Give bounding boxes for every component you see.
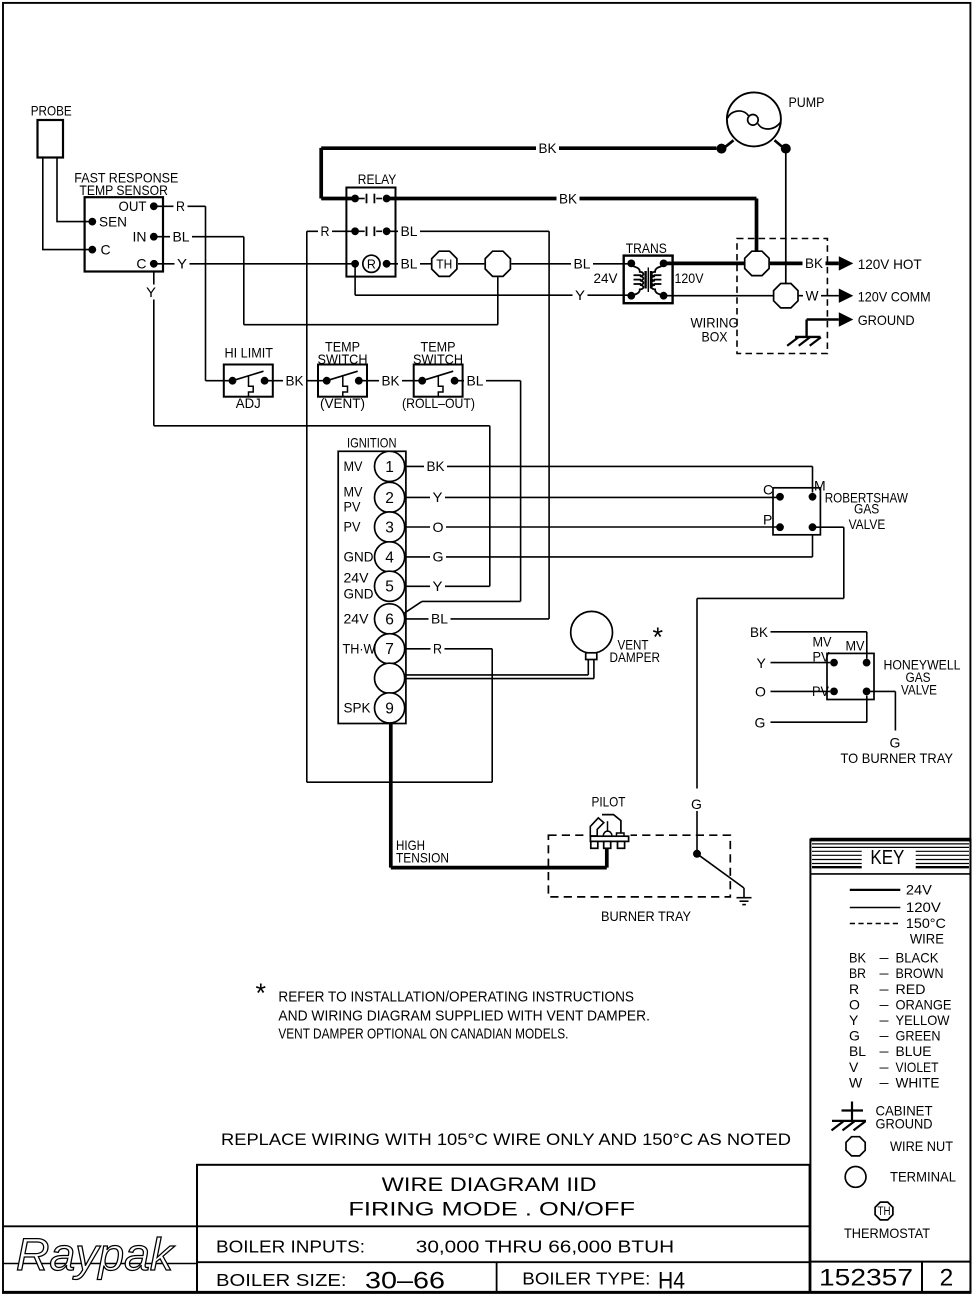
wire TH to wire nut (458, 263, 484, 265)
wire BK to 120V hot arrow (770, 262, 839, 266)
honeywell terminals (830, 659, 838, 667)
svg-text:–: – (880, 1074, 889, 1090)
honeywell gas valve box (827, 653, 874, 699)
svg-text:VENT DAMPER OPTIONAL ON CANADI: VENT DAMPER OPTIONAL ON CANADIAN MODELS. (278, 1026, 568, 1043)
robertshaw terminals C M P and MV (776, 493, 784, 501)
svg-text:1: 1 (385, 459, 394, 476)
svg-text:YELLOW: YELLOW (896, 1012, 951, 1028)
wire W to 120V comm arrow (799, 295, 839, 297)
svg-text:–: – (880, 996, 889, 1012)
svg-text:BK: BK (849, 950, 867, 966)
svg-text:5: 5 (385, 579, 394, 596)
svg-text:MV: MV (846, 638, 866, 654)
svg-text:TENSION: TENSION (396, 849, 449, 865)
svg-text:PUMP: PUMP (789, 94, 825, 110)
wire BL ignition pin6 (405, 618, 549, 620)
svg-text:R: R (433, 641, 442, 657)
thermostat TH (432, 251, 457, 276)
svg-text:WIRE: WIRE (910, 930, 944, 946)
svg-text:PROBE: PROBE (31, 103, 72, 119)
svg-text:BL: BL (574, 256, 591, 272)
svg-text:G: G (890, 734, 901, 750)
svg-text:BK: BK (382, 373, 401, 389)
svg-text:BL: BL (401, 223, 418, 239)
svg-text:H4: H4 (658, 1267, 685, 1294)
svg-text:Y: Y (177, 256, 188, 272)
svg-text:24V: 24V (344, 611, 370, 627)
svg-text:*: * (653, 622, 664, 652)
svg-text:*: * (256, 978, 267, 1008)
svg-text:G: G (755, 714, 766, 730)
svg-text:G: G (691, 796, 702, 812)
key header hatching (812, 843, 969, 845)
svg-text:TO BURNER TRAY: TO BURNER TRAY (841, 750, 954, 766)
svg-text:–: – (880, 1058, 889, 1074)
svg-text:9: 9 (385, 700, 394, 717)
svg-text:–: – (880, 1043, 889, 1059)
svg-text:VIOLET: VIOLET (896, 1059, 939, 1075)
pump terminals (724, 140, 734, 148)
wire relay coil left to trans 24V Y (354, 264, 356, 295)
key number row separator (810, 1261, 970, 1263)
wiring box dashed enclosure (737, 239, 827, 354)
key box (810, 840, 970, 1292)
svg-text:BK: BK (286, 373, 305, 389)
key 120V sample (850, 907, 901, 909)
wire robertshaw MV to burner tray ground (813, 526, 844, 528)
key 24V sample (850, 889, 901, 891)
relay coil R (351, 260, 359, 268)
wire BL from sensor IN (154, 236, 244, 238)
svg-text:KEY: KEY (870, 847, 904, 869)
key number divider (921, 1262, 923, 1292)
svg-text:P: P (763, 511, 772, 527)
svg-text:MV: MV (813, 634, 833, 650)
wire probe to sensor SEN (57, 158, 90, 222)
key 150C dashed sample (850, 923, 901, 925)
wire Y ignition pin5 label (405, 585, 490, 587)
svg-text:BL: BL (401, 256, 418, 272)
terminal IN (150, 233, 158, 241)
key thermostat symbol (875, 1202, 893, 1220)
svg-text:W: W (806, 288, 820, 304)
wire nut 120V hot (745, 251, 769, 275)
key header separator (810, 873, 970, 875)
svg-text:BK: BK (539, 140, 558, 156)
svg-text:REFER TO INSTALLATION/OPERATIN: REFER TO INSTALLATION/OPERATING INSTRUCT… (278, 988, 634, 1005)
vent damper (571, 611, 613, 653)
robertshaw gas valve box (773, 488, 820, 535)
raypak logo (4, 1263, 197, 1265)
burner tray dashed box (548, 835, 730, 897)
terminal SEN (88, 218, 96, 226)
wire honeywell ground pin to burner tray (871, 690, 896, 692)
svg-text:GREEN: GREEN (896, 1028, 941, 1044)
svg-text:GND: GND (344, 586, 374, 602)
svg-text:FIRING MODE . ON/OFF: FIRING MODE . ON/OFF (348, 1199, 635, 1221)
svg-text:24V: 24V (344, 570, 370, 586)
key terminal symbol (845, 1167, 866, 1188)
wire trans comm to wire nut W (667, 295, 774, 297)
wire 120V BK line to pump left terminal (321, 146, 716, 150)
svg-text:WHITE: WHITE (896, 1074, 940, 1090)
svg-text:120V: 120V (906, 899, 942, 915)
key wire nut symbol (846, 1137, 865, 1156)
svg-text:BOILER INPUTS:: BOILER INPUTS: (216, 1237, 365, 1257)
svg-text:SPK: SPK (344, 700, 372, 716)
transformer T1 box (624, 256, 673, 304)
svg-text:BOX: BOX (702, 328, 729, 344)
sensor U1 box (85, 197, 163, 271)
probe body (38, 120, 64, 158)
svg-text:TH: TH (436, 258, 452, 272)
svg-text:Raypak: Raypak (16, 1229, 176, 1280)
title block column divider (496, 1262, 498, 1292)
svg-text:ORANGE: ORANGE (896, 996, 952, 1012)
svg-text:GROUND: GROUND (876, 1116, 933, 1132)
temp switch S3 box (414, 365, 463, 397)
temp switch roll-out contacts (418, 377, 426, 385)
terminal OUT (150, 202, 158, 210)
transformer coils and core (631, 266, 643, 296)
earth ground symbol (743, 888, 745, 897)
svg-text:GROUND: GROUND (858, 312, 915, 328)
wire BL relay row2 to ignition 24V (387, 230, 549, 232)
svg-text:7: 7 (385, 641, 394, 658)
svg-text:150°C: 150°C (906, 915, 946, 931)
svg-text:BOILER SIZE:: BOILER SIZE: (216, 1270, 347, 1290)
svg-text:VALVE: VALVE (901, 682, 937, 697)
svg-text:Y: Y (849, 1012, 859, 1028)
svg-text:BURNER TRAY: BURNER TRAY (601, 908, 692, 924)
svg-text:C: C (101, 241, 111, 257)
svg-text:2: 2 (385, 490, 394, 507)
svg-text:152357: 152357 (819, 1265, 913, 1292)
svg-text:Y: Y (575, 287, 586, 303)
svg-text:V: V (849, 1059, 859, 1075)
title block row line 2 (197, 1261, 810, 1263)
wire R ignition pin7 (405, 648, 493, 650)
svg-text:G: G (849, 1028, 860, 1044)
pump M1 (727, 92, 781, 146)
relay K1 box (346, 188, 395, 277)
wire 120V BK relay row1 to wiring box (387, 197, 757, 201)
svg-text:W: W (849, 1074, 863, 1090)
burner tray ground node (693, 850, 701, 858)
svg-text:HI LIMIT: HI LIMIT (225, 345, 274, 361)
svg-text:–: – (880, 965, 889, 981)
svg-text:THERMOSTAT: THERMOSTAT (844, 1225, 930, 1241)
ground wire and arrow (807, 318, 839, 320)
svg-text:G: G (433, 549, 444, 565)
svg-text:GAS: GAS (854, 502, 879, 517)
svg-text:120V: 120V (675, 270, 705, 286)
wire 120V BK trans to wire nut (667, 262, 745, 266)
svg-text:C: C (136, 256, 146, 272)
svg-text:BL: BL (431, 611, 448, 627)
svg-text:–: – (880, 1012, 889, 1028)
wire 120V pump right to wiring box W (785, 149, 787, 283)
svg-text:TH·W: TH·W (343, 641, 377, 657)
svg-text:IN: IN (133, 228, 147, 244)
ignition module box (338, 451, 406, 723)
wire Y ignition pin2 to robertshaw C (405, 496, 780, 498)
wire BL relay coil to thermostat (387, 263, 431, 265)
svg-text:Y: Y (433, 578, 444, 594)
svg-text:TH: TH (878, 1206, 891, 1218)
svg-text:O: O (755, 684, 766, 700)
svg-text:R: R (849, 981, 859, 997)
svg-text:Y: Y (757, 655, 767, 671)
svg-text:OUT: OUT (119, 198, 147, 214)
temp switch vent contacts (323, 377, 331, 385)
hi limit contacts (229, 377, 237, 385)
key cabinet ground symbol (851, 1102, 853, 1122)
svg-text:(VENT): (VENT) (320, 395, 365, 411)
svg-text:BLACK: BLACK (896, 950, 940, 966)
svg-text:–: – (880, 1027, 889, 1043)
relay contact row2 (351, 227, 359, 235)
temp switch S2 box (318, 365, 367, 397)
svg-text:MV: MV (344, 458, 364, 474)
cabinet ground symbol in wiring box (805, 320, 807, 338)
svg-text:R: R (367, 257, 376, 271)
title block row line 1 (4, 1225, 810, 1227)
svg-text:BL: BL (849, 1043, 866, 1059)
wire BK vent to roll-out switch (359, 380, 422, 382)
svg-text:SEN: SEN (99, 213, 127, 229)
svg-text:R: R (176, 198, 185, 214)
svg-text:(ROLL–OUT): (ROLL–OUT) (402, 395, 475, 411)
svg-text:BL: BL (467, 373, 484, 389)
terminal C right (150, 260, 158, 268)
wire R from sensor OUT to hi-limit (154, 205, 206, 207)
svg-text:BR: BR (849, 965, 866, 981)
wire ignition pin8 to vent damper (pair) (405, 674, 589, 676)
svg-text:BK: BK (805, 255, 824, 271)
wire nut W1 (485, 251, 510, 276)
svg-text:IGNITION: IGNITION (347, 435, 397, 451)
svg-text:WIRE DIAGRAM IID: WIRE DIAGRAM IID (382, 1174, 597, 1196)
pilot assembly (588, 833, 631, 849)
svg-text:ADJ: ADJ (236, 395, 261, 411)
wire probe to sensor C (43, 158, 90, 250)
svg-text:O: O (849, 996, 860, 1012)
ignition terminal circles 1-9 (375, 451, 405, 481)
wire nut 120V comm (774, 284, 798, 308)
wire BK ignition pin1 to robertshaw M (405, 465, 813, 467)
wire G ignition pin4 to robertshaw MV (405, 556, 813, 558)
svg-text:TRANS: TRANS (626, 240, 667, 256)
svg-text:PILOT: PILOT (592, 794, 626, 810)
wire Y from sensor C to relay (154, 263, 355, 265)
wire BL roll-out to ignition 24V (455, 380, 521, 382)
wire SPK high tension to pilot (389, 723, 393, 868)
transformer terminals (627, 260, 635, 268)
svg-text:O: O (433, 519, 444, 535)
svg-text:Y: Y (146, 284, 157, 300)
svg-text:PV: PV (344, 519, 362, 535)
relay contact row1 (351, 195, 359, 203)
svg-text:BLUE: BLUE (896, 1043, 932, 1059)
svg-text:R: R (321, 223, 330, 239)
svg-text:2: 2 (940, 1265, 954, 1292)
svg-text:30–66: 30–66 (365, 1267, 445, 1294)
svg-text:120V HOT: 120V HOT (858, 256, 922, 272)
svg-text:30,000 THRU 66,000 BTUH: 30,000 THRU 66,000 BTUH (416, 1237, 674, 1257)
svg-text:24V: 24V (906, 882, 933, 898)
hi limit switch S1 box (224, 365, 273, 397)
svg-text:RELAY: RELAY (358, 171, 397, 187)
svg-text:BK: BK (559, 190, 578, 206)
svg-text:BK: BK (427, 458, 446, 474)
wire R relay row2 loop to ignition TH-W (307, 230, 355, 232)
svg-text:TERMINAL: TERMINAL (890, 1169, 956, 1185)
svg-text:C: C (763, 481, 773, 497)
svg-text:VALVE: VALVE (849, 517, 886, 532)
svg-text:BOILER TYPE:: BOILER TYPE: (522, 1268, 650, 1288)
svg-text:4: 4 (385, 549, 394, 566)
svg-text:BROWN: BROWN (896, 965, 944, 981)
svg-text:MV: MV (344, 484, 364, 500)
wire 120V BK pump to relay row1 (321, 197, 355, 201)
svg-text:BK: BK (750, 624, 769, 640)
svg-text:TEMP SENSOR: TEMP SENSOR (79, 182, 167, 198)
title block box (197, 1165, 810, 1292)
svg-text:6: 6 (385, 611, 394, 628)
svg-text:120V COMM: 120V COMM (858, 288, 931, 304)
wire O ignition pin3 to robertshaw P (405, 526, 780, 528)
svg-text:24V: 24V (594, 270, 619, 286)
terminal C left (88, 246, 96, 254)
svg-text:–: – (880, 949, 889, 965)
svg-text:–: – (880, 980, 889, 996)
svg-text:Y: Y (433, 489, 444, 505)
svg-text:RED: RED (896, 981, 926, 997)
wire BL wire nut to trans (511, 263, 631, 265)
wire BK hi-limit to temp switch vent (265, 380, 327, 382)
svg-text:WIRE NUT: WIRE NUT (890, 1138, 953, 1154)
wire Y from sensor C to ignition 24V GND (153, 272, 155, 426)
svg-text:REPLACE WIRING WITH 105°C WIRE: REPLACE WIRING WITH 105°C WIRE ONLY AND … (221, 1131, 791, 1149)
svg-text:PV: PV (344, 499, 362, 515)
svg-text:BL: BL (173, 229, 190, 245)
svg-text:AND WIRING DIAGRAM SUPPLIED WI: AND WIRING DIAGRAM SUPPLIED WITH VENT DA… (278, 1008, 650, 1025)
svg-text:GND: GND (344, 549, 374, 565)
svg-text:3: 3 (385, 519, 394, 536)
